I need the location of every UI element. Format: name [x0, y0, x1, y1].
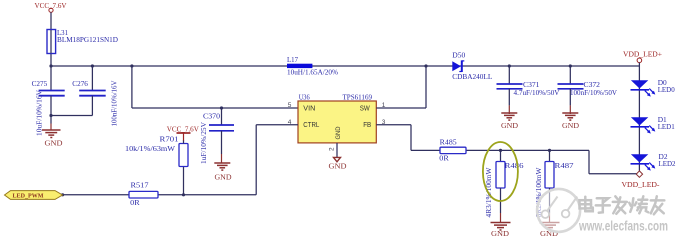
svg-text:D50: D50 [452, 51, 465, 60]
svg-text:LED_PWM: LED_PWM [13, 192, 44, 199]
svg-text:C275: C275 [32, 79, 48, 88]
svg-text:GND: GND [491, 229, 510, 238]
wire SW to rail [376, 66, 426, 108]
resistor R701 [125, 135, 188, 195]
ground R486 [491, 223, 511, 231]
watermark text 电子发烧友 (drawn glyphs) [580, 196, 665, 214]
node junction C275 gnd branch [49, 114, 52, 117]
wire VCC to L31 and down to rail [50, 12, 52, 66]
svg-text:R487: R487 [555, 161, 574, 170]
node junction SW tap [424, 64, 427, 67]
capacitor C276 [72, 66, 118, 127]
svg-text:C276: C276 [72, 79, 88, 88]
inductor L17 [287, 55, 338, 77]
node junction C276 tap [91, 64, 94, 67]
svg-text:LED2: LED2 [659, 159, 676, 168]
svg-text:C370: C370 [203, 112, 220, 121]
wire C276 bottom to C275 branch [51, 115, 92, 117]
wire FB net [376, 125, 636, 174]
wire main rail [51, 65, 639, 67]
port VDD_LED- (diamond) [622, 171, 661, 189]
svg-text:VCC_7.6V: VCC_7.6V [35, 1, 68, 10]
resistor R487 [534, 150, 574, 222]
IC U36 TPS61169 boost converter [288, 93, 386, 151]
capacitor C372 [558, 66, 618, 114]
svg-text:R701: R701 [160, 135, 179, 144]
子 [596, 198, 610, 213]
resistor R486 [484, 150, 524, 222]
svg-text:TPS61169: TPS61169 [343, 93, 373, 102]
wire VIN feed [132, 66, 298, 108]
svg-text:FB: FB [363, 122, 371, 129]
svg-text:GND: GND [215, 172, 233, 181]
友 [651, 196, 665, 214]
svg-text:www.elecfans.com: www.elecfans.com [578, 219, 668, 234]
capacitor C275 [32, 66, 65, 136]
wire CTRL net [63, 125, 298, 195]
svg-text:R517: R517 [131, 181, 149, 190]
svg-text:BLM18PG121SN1D: BLM18PG121SN1D [57, 35, 119, 44]
svg-text:LED1: LED1 [658, 122, 675, 131]
LED D0 [631, 78, 675, 97]
svg-text:GND: GND [45, 138, 64, 147]
svg-text:1uF/10%/25V: 1uF/10%/25V [199, 121, 208, 164]
LED D1 [631, 115, 675, 134]
svg-text:2: 2 [328, 147, 335, 151]
svg-text:VIN: VIN [303, 106, 315, 113]
svg-text:VDD_LED-: VDD_LED- [622, 180, 661, 189]
watermark logo [537, 189, 580, 232]
svg-text:0R: 0R [130, 198, 140, 207]
svg-text:LED0: LED0 [658, 85, 675, 94]
node junction R487 tap [548, 149, 551, 152]
ground C370 [214, 163, 230, 170]
ferrite bead L31 [47, 28, 119, 53]
svg-text:R486: R486 [505, 161, 524, 170]
node junction R486 tap [499, 149, 502, 152]
resistor R485 [439, 137, 466, 162]
wire U36 gnd pin [336, 143, 338, 158]
node junction VIN feed tap [130, 64, 133, 67]
node junction C370 tap [220, 106, 223, 109]
highlight ellipse around R486 [483, 142, 518, 201]
svg-text:5: 5 [288, 102, 292, 109]
svg-text:VCC_7.6V: VCC_7.6V [167, 124, 200, 133]
svg-text:GND: GND [335, 126, 342, 139]
svg-text:GND: GND [501, 121, 519, 130]
node junction C372 tap [569, 64, 572, 67]
node junction R701 bottom [182, 193, 185, 196]
svg-text:10uF/10%/16V: 10uF/10%/16V [35, 89, 44, 136]
svg-text:CTRL: CTRL [303, 122, 319, 129]
port LED_PWM [5, 191, 63, 200]
svg-text:SW: SW [360, 106, 370, 113]
node junction C371 tap [508, 64, 511, 67]
diode D50 CDBA240LL [452, 51, 492, 81]
ground R487 [540, 223, 560, 231]
svg-text:VDD_LED+: VDD_LED+ [623, 49, 662, 58]
wire LED column [638, 63, 640, 171]
svg-text:L17: L17 [287, 55, 298, 64]
node junction L31/C275 [49, 64, 52, 67]
svg-text:10uH/1.65A/20%: 10uH/1.65A/20% [287, 68, 338, 77]
svg-text:0R: 0R [439, 153, 449, 162]
ground C371 [501, 113, 517, 120]
svg-text:CDBA240LL: CDBA240LL [452, 72, 492, 81]
svg-text:100nF/10%/50V: 100nF/10%/50V [570, 88, 618, 97]
ground C275 [42, 130, 61, 138]
svg-text:100nF/10%/16V: 100nF/10%/16V [110, 80, 119, 127]
电 [580, 197, 593, 212]
发 [613, 196, 627, 214]
capacitor C370 [199, 108, 234, 164]
ground C372 [562, 113, 578, 120]
烧 [629, 196, 648, 213]
resistor R517 [129, 181, 158, 208]
node junction port tap [61, 193, 64, 196]
power symbol VCC_7.6V (top left) [35, 1, 68, 12]
capacitor C371 [497, 66, 561, 114]
svg-text:R485: R485 [440, 137, 457, 146]
ground U36 (triangle) [334, 157, 341, 161]
svg-text:U36: U36 [299, 93, 310, 102]
svg-text:4.7uF/10%/50V: 4.7uF/10%/50V [514, 88, 561, 97]
power symbol VDD_LED+ [623, 49, 662, 62]
svg-text:GND: GND [562, 121, 580, 130]
power symbol VCC_7.6V (at R701) [167, 124, 200, 140]
LED D2 [631, 152, 676, 171]
svg-text:GND: GND [329, 162, 348, 171]
svg-text:10k/1%/63mW: 10k/1%/63mW [125, 144, 176, 153]
